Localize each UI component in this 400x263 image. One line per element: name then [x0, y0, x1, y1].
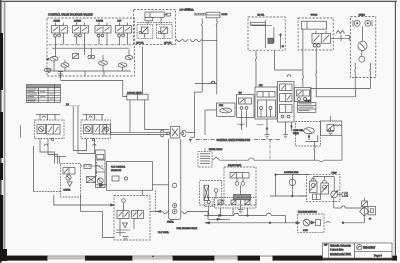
wire riser A	[202, 19, 203, 93]
power unit box	[306, 172, 340, 201]
gauge port G1	[88, 48, 95, 58]
valve section V4 (lift)	[116, 21, 132, 45]
check valve CV1	[73, 54, 79, 59]
valve section V1 (steer)	[52, 21, 68, 45]
relief valve RV5	[125, 48, 133, 59]
svg-text:BOOM: BOOM	[222, 14, 228, 16]
holding valve H1	[137, 24, 153, 38]
wire swing drain B	[370, 63, 371, 89]
svg-text:UPPER: UPPER	[311, 14, 318, 16]
tank stub TA	[265, 119, 270, 138]
wire priority drain	[341, 135, 343, 160]
upper cylinder body	[301, 21, 326, 29]
accumulator	[270, 171, 309, 197]
lower bank section L2	[81, 120, 111, 141]
wire jib drain B	[275, 50, 302, 70]
manifold block B	[237, 93, 254, 118]
tank below relief	[238, 200, 243, 213]
logo Snorkel	[357, 244, 383, 257]
relief valve RV4	[118, 63, 127, 67]
svg-text:PLAT LEVEL: PLAT LEVEL	[158, 231, 169, 234]
flow control box	[293, 122, 320, 146]
wire upper drain B	[316, 47, 317, 97]
border frame left line	[4, 2, 6, 257]
wire pump to filter	[334, 198, 365, 208]
manifold block A (filter)	[205, 103, 235, 135]
return line lower	[205, 222, 301, 224]
svg-text:DUAL HOLDING VALVE: DUAL HOLDING VALVE	[177, 227, 198, 230]
section label	[196, 139, 280, 142]
brake port A	[353, 20, 360, 27]
valve section V2 (lower)	[73, 21, 89, 45]
svg-text:VALVE: VALVE	[293, 132, 299, 135]
tank rail wire	[50, 70, 131, 72]
hose swivel out	[212, 157, 223, 160]
pressure tap oval	[44, 68, 50, 72]
wire drops out of package	[60, 71, 62, 77]
svg-text:2 SPD: 2 SPD	[303, 230, 309, 232]
swivel column	[167, 139, 181, 223]
wire aux bus	[316, 96, 356, 98]
platform rotate valve	[61, 164, 81, 198]
manifold block D	[278, 82, 295, 123]
svg-text:ACCUMULATOR: ACCUMULATOR	[284, 171, 299, 174]
relief spring valve	[331, 31, 351, 42]
boom header block	[206, 12, 220, 18]
svg-text:CONTROL VALVE PACKAGE VALVES: CONTROL VALVE PACKAGE VALVES	[48, 12, 93, 16]
bottom scan bar	[2, 255, 397, 258]
wire jib drain A	[255, 50, 256, 87]
tank symbol T2	[58, 74, 64, 78]
wire riser B	[216, 19, 217, 95]
left return main	[33, 146, 35, 192]
jib holding valve	[268, 27, 274, 44]
wire filter return	[343, 222, 364, 224]
bank drains	[40, 139, 96, 149]
left scan bar	[0, 0, 2, 263]
tank symbol T1	[46, 69, 63, 80]
border frame right line	[394, 2, 396, 258]
wire boom crossover	[202, 39, 217, 41]
svg-text:LIFT CYL: LIFT CYL	[136, 42, 144, 44]
svg-text:LOWER: LOWER	[74, 21, 82, 23]
motor M1	[309, 178, 317, 192]
rotate aux fittings	[81, 162, 105, 187]
drain dash line	[154, 190, 156, 211]
lift cylinder body	[145, 12, 170, 21]
brake port B	[365, 20, 372, 27]
wire pump suction	[298, 195, 306, 197]
relief valve RV3	[99, 55, 108, 65]
title block	[323, 243, 393, 258]
holding valve H2	[156, 24, 172, 38]
ground tank G2	[327, 128, 334, 135]
inlet strainer	[360, 198, 369, 223]
svg-text:NOTE: NOTE	[185, 9, 191, 11]
valve section V3 (tower)	[95, 21, 111, 45]
wire rotate return	[81, 195, 115, 238]
relief valve assembly	[224, 164, 256, 205]
relief valve RV2	[61, 60, 69, 67]
2 spool valve	[127, 91, 148, 100]
lift cylinder box	[134, 9, 176, 44]
jib pilot line	[280, 33, 285, 49]
svg-text:SWIVEL VALVE: SWIVEL VALVE	[209, 148, 223, 151]
wire bridge	[195, 83, 217, 85]
svg-text:ROTATE: ROTATE	[64, 189, 71, 192]
lower bank section L1	[35, 120, 65, 141]
svg-text:VALVE: VALVE	[305, 99, 311, 102]
wire swing return bus	[311, 88, 371, 90]
rotary joint block	[167, 127, 184, 139]
svg-text:VALVE PKG: VALVE PKG	[111, 169, 122, 172]
swing drive box	[351, 17, 376, 78]
tank stub TB	[283, 122, 292, 138]
upper boom box	[298, 18, 333, 50]
bump arc	[211, 81, 215, 83]
svg-text:Snorkel: Snorkel	[363, 246, 375, 250]
pressure table	[27, 85, 61, 103]
manifold block C	[255, 85, 277, 119]
valve data table	[298, 99, 316, 112]
priority valve block	[320, 116, 341, 135]
dual holding valve	[114, 196, 150, 241]
main pump P1	[313, 177, 338, 198]
svg-text:SWING: SWING	[359, 14, 366, 16]
hatched label bar	[194, 13, 205, 15]
wire rotate out	[54, 195, 111, 205]
svg-text:2 wheel drive: 2 wheel drive	[330, 249, 344, 252]
svg-text:Snorkel model TB60: Snorkel model TB60	[330, 253, 351, 256]
upper holding valve	[312, 31, 331, 47]
svg-text:JIB CYL: JIB CYL	[257, 15, 264, 17]
bank center risers	[72, 106, 74, 151]
plat control valve pkg	[107, 162, 153, 191]
gear box	[313, 194, 321, 200]
wire pressure rail	[52, 47, 128, 49]
bank top header wires	[36, 114, 104, 120]
return line upper	[204, 207, 286, 223]
svg-text:REF: REF	[324, 245, 327, 247]
wire feed to spool valve	[61, 80, 127, 96]
lower distribution manifold	[205, 198, 257, 209]
svg-text:SWIVEL: SWIVEL	[167, 221, 174, 223]
jib cylinder body	[251, 20, 272, 48]
svg-text:TOWER: TOWER	[96, 21, 104, 23]
dash centerline	[269, 140, 271, 160]
svg-text:Page 9: Page 9	[374, 254, 383, 257]
hose out swivel right	[182, 211, 189, 213]
wire spool drops	[129, 100, 131, 132]
hose S2	[190, 40, 202, 42]
brake valve box	[200, 181, 222, 205]
traction manifold	[298, 210, 331, 232]
svg-text:TRACTION MANIFOLD: TRACTION MANIFOLD	[298, 210, 318, 213]
relief valve RV1	[47, 57, 59, 62]
wire long return	[223, 159, 249, 161]
wire swivel feed	[153, 184, 169, 186]
wire flowctrl links	[306, 135, 318, 141]
staircase wires	[40, 145, 95, 164]
platform stack column	[96, 150, 106, 188]
wire stub left	[19, 125, 21, 138]
swing motor	[358, 26, 367, 50]
svg-text:CONTROL VALVE POWER PKG: CONTROL VALVE POWER PKG	[217, 139, 251, 142]
wire lift drop	[142, 47, 144, 95]
manifold block E	[295, 88, 312, 102]
wire corner to spool column	[194, 91, 202, 93]
jib cylinder box	[248, 17, 285, 50]
cylinder port wires	[147, 21, 149, 25]
wire platform bus	[111, 131, 169, 133]
pump P2	[321, 180, 329, 194]
border frame top edge	[0, 1, 397, 2]
swing brake	[359, 51, 365, 63]
svg-text:STEER: STEER	[54, 21, 61, 23]
svg-text:PLAT CONTROL: PLAT CONTROL	[111, 166, 125, 169]
coupler	[338, 192, 348, 196]
swivel valve	[198, 148, 223, 167]
hose S1	[176, 40, 188, 42]
hose into swivel left	[162, 211, 169, 213]
wire drops below block B	[241, 118, 243, 131]
control valve package box	[47, 18, 135, 76]
wire swing drain A	[355, 63, 356, 89]
wire upper drain A	[302, 29, 303, 87]
breather box	[368, 206, 376, 220]
bus line (dash-dot)	[49, 44, 134, 46]
svg-text:Hydraulic Schematic: Hydraulic Schematic	[330, 245, 352, 248]
svg-text:LIFT CYL: LIFT CYL	[164, 42, 172, 44]
